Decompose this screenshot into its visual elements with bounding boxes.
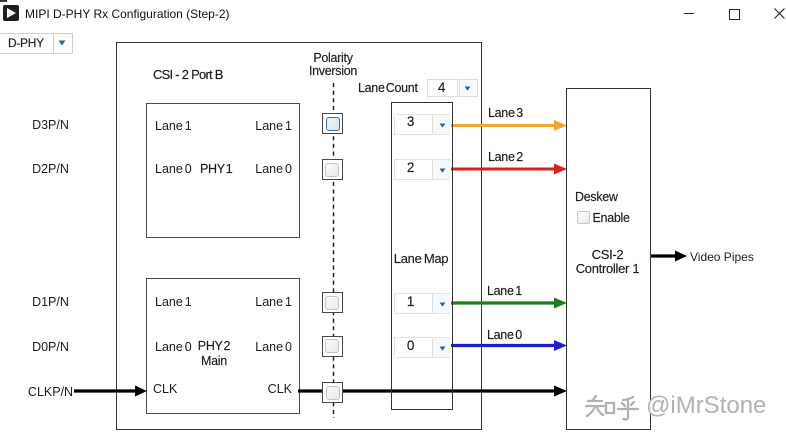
label Enable [593,211,630,225]
wire CLKP/N input arrow [74,389,136,392]
label Lane 1 [487,284,522,298]
window frame corner mark [0,0,7,2]
window title text [25,7,230,21]
checkbox Deskew Enable [577,211,590,224]
wire Video Pipes output arrow [650,254,676,257]
title bar icon (play button) [3,5,19,21]
hu [618,397,638,419]
label PHY 1 [200,162,232,176]
PHY 2 pin Lane 0 right [212,340,292,354]
Lane Count dropdown arrow [459,79,478,97]
PHY 2 pin Lane 0 left [155,340,192,354]
PHY 2 pin CLK right [212,382,292,396]
label Deskew [575,190,618,204]
label Lane 3 [488,106,523,120]
D-PHY selector value box [0,33,54,54]
lane map dropdown 2 [394,159,450,180]
PHY 2 pin CLK left [153,382,177,396]
Lane Count dropdown value 4 [427,79,458,97]
D-PHY selector arrow button [53,33,73,54]
checkbox polarity lane1(phy1) highlighted [322,113,343,134]
label Polarity Inversion [283,51,383,65]
label Lane Map [391,251,451,266]
node D0P/N [0,340,101,354]
checkbox polarity lane0(phy2) [322,336,343,357]
svg-text:@iMrStone: @iMrStone [646,392,766,419]
PHY 1 pin Lane 0 right [212,162,292,176]
label Lane 0 [487,328,522,342]
PHY 2 pin Lane 1 right [212,295,292,309]
lane map dropdown 0 [394,337,450,358]
lane map dropdown 3 [394,114,450,135]
checkbox polarity lane0(phy1) [322,159,343,180]
wire CLK through [298,389,555,392]
PHY 2 box [146,278,300,414]
dashed polarity inversion line [333,83,335,418]
checkbox polarity clk [322,382,343,403]
close button [774,8,785,19]
Lane Map box [391,102,453,410]
maximize button [729,9,740,20]
label Lane Count [358,81,418,95]
wire Lane 1 (green) [451,301,555,304]
label Controller 1 [566,261,649,276]
checkbox polarity lane1(phy2) [322,292,343,313]
label CSI - 2 Port B [153,67,223,82]
PHY 1 box [146,103,300,238]
watermark 知乎 @iMrStone [585,392,786,424]
node D2P/N [0,162,101,176]
minimize button [684,13,694,14]
wire Lane 0 (blue) [451,344,555,347]
CSI-2 Port B outer box [116,42,482,430]
label PHY 2 [170,339,258,353]
PHY 1 pin Lane 1 right [212,119,292,133]
label Main [170,354,258,368]
node D3P/N [0,118,101,132]
PHY 1 pin Lane 0 left [155,162,192,176]
label Video Pipes [690,250,754,264]
label CSI-2 [566,247,649,262]
PHY 2 pin Lane 1 left [155,295,192,309]
node D1P/N [0,295,101,309]
wire Lane 3 (orange) [451,124,555,127]
lane map dropdown 1 [394,293,450,314]
CSI-2 Controller 1 box [566,88,651,430]
label Lane 2 [488,150,523,164]
zhi [586,396,604,416]
node CLKP/N [0,385,101,399]
PHY 1 pin Lane 1 left [155,119,192,133]
wire Lane 2 (red) [451,168,555,171]
